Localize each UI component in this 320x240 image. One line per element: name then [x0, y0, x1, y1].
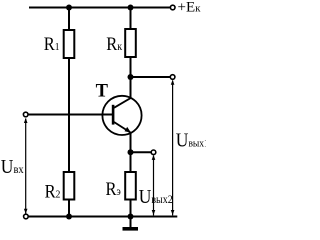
svg-text:T: T	[96, 82, 109, 102]
svg-text:+Eк: +Eк	[178, 0, 202, 16]
